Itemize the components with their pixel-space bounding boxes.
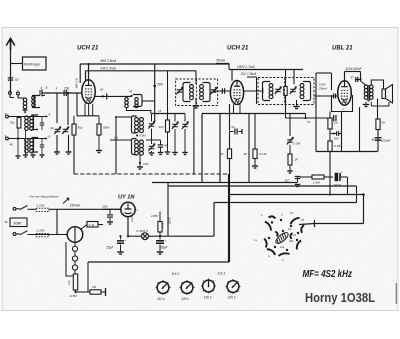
svg-text:220 v: 220 v — [227, 296, 236, 300]
grid capacitor tube2 — [221, 88, 223, 94]
svg-text:105V: 105V — [151, 214, 159, 218]
svg-text:50mA: 50mA — [217, 59, 225, 63]
svg-text:6.3V/0.3: 6.3V/0.3 — [137, 229, 149, 233]
wire IF1 to tube2 grid — [214, 90, 232, 92]
IF1 primary former — [183, 83, 191, 102]
coil L4a — [25, 139, 29, 143]
svg-text:0.15A: 0.15A — [37, 229, 45, 233]
svg-text:60: 60 — [100, 88, 104, 92]
svg-text:130V: 130V — [130, 214, 134, 222]
svg-text:0.1W: 0.1W — [260, 152, 268, 156]
wire grid row tube1 — [42, 92, 82, 94]
right page edge mark — [395, 283, 397, 304]
wire chain bypass — [66, 242, 73, 276]
wire resistor row — [299, 176, 312, 178]
svg-text:1.5M: 1.5M — [313, 181, 320, 185]
bus AVC return — [152, 182, 297, 184]
wire screen into IF2 — [293, 70, 295, 85]
wire rectifier input — [103, 208, 121, 210]
IF transformer 1 box — [176, 79, 218, 106]
IF1 primary coil — [190, 85, 194, 89]
IF1 secondary coil — [200, 85, 204, 89]
band coil left — [125, 98, 128, 101]
resistor 0.1W screen — [328, 141, 332, 152]
tube1 cathode pins — [84, 104, 86, 116]
svg-text:KW 2.3mA: KW 2.3mA — [101, 67, 116, 71]
svg-text:Richtmagn.: Richtmagn. — [24, 63, 41, 67]
svg-text:2: 2 — [16, 89, 19, 93]
svg-text:11a: 11a — [280, 245, 285, 249]
svg-text:57: 57 — [15, 78, 19, 82]
volume pot 0.5M — [289, 114, 291, 137]
dial 110V — [157, 282, 169, 294]
wire W2 corner — [213, 203, 215, 237]
dial 220V — [181, 282, 193, 294]
wire L2 to gang — [42, 95, 46, 97]
wire tube1 to bandfilter — [95, 95, 131, 97]
svg-text:10V 1.5mA: 10V 1.5mA — [241, 72, 257, 76]
resistor 4.42 — [87, 222, 98, 228]
switch S1b — [16, 233, 20, 235]
wire osc row A — [116, 116, 132, 118]
svg-text:130 v: 130 v — [204, 296, 212, 300]
power rating box 36W — [10, 218, 27, 227]
wire tube3 cathode to bus — [341, 112, 343, 152]
svg-text:40a: 40a — [289, 239, 294, 243]
resistor 1.5M — [312, 175, 324, 179]
svg-text:50V: 50V — [157, 83, 164, 87]
svg-text:1M: 1M — [92, 285, 97, 289]
osc fixed capacitor 45 — [146, 139, 161, 141]
node bus1 tube — [88, 63, 90, 65]
wire osc to gang link — [115, 117, 117, 174]
wire osc coil bottom — [139, 155, 141, 163]
wire terminal 4 row — [8, 138, 47, 140]
IF2 damping resistor — [284, 87, 287, 96]
wire AF drop mid — [248, 114, 250, 183]
svg-text:0μ: 0μ — [232, 125, 236, 129]
svg-text:150mA: 150mA — [70, 204, 80, 208]
svg-text:(25)μF: (25)μF — [381, 139, 390, 143]
svg-text:45: 45 — [129, 90, 133, 94]
IF2 secondary trimmer — [290, 88, 296, 90]
wire band coil bottom — [127, 108, 151, 114]
wire chassis to node — [87, 262, 89, 292]
shield box tube3 — [332, 95, 353, 112]
ground IF2 — [296, 100, 298, 107]
terminal 3 — [6, 115, 9, 118]
resistor 70k — [227, 149, 231, 159]
svg-text:UBL 21: UBL 21 — [332, 46, 353, 52]
gang link dashed — [74, 173, 229, 175]
resistor 2K — [376, 119, 380, 130]
gang capacitor C1 — [56, 93, 58, 123]
screen feed left — [316, 72, 332, 74]
IF2 secondary former — [303, 82, 311, 101]
dial lamp chain — [74, 242, 76, 246]
electrolytic 50uF right — [335, 173, 339, 181]
node grid tube1 — [67, 92, 70, 95]
svg-text:50μF: 50μF — [160, 246, 168, 250]
wire 50uF to W1 — [347, 177, 349, 195]
svg-text:+: + — [165, 238, 167, 242]
wire ballast right — [81, 225, 88, 230]
svg-text:0.1M: 0.1M — [139, 134, 146, 138]
coil L4b — [30, 139, 34, 143]
svg-text:110 v: 110 v — [157, 297, 165, 301]
svg-text:25μF: 25μF — [105, 246, 114, 250]
svg-text:250: 250 — [333, 137, 339, 141]
grid capacitor UBL21 — [333, 94, 335, 99]
wire anode to OPT primary — [361, 81, 367, 86]
svg-text:0.25A: 0.25A — [37, 203, 45, 207]
output transformer T1 — [364, 85, 368, 89]
IF1 secondary former — [203, 83, 211, 102]
svg-text:0.1W: 0.1W — [334, 144, 342, 148]
vertical W1 to chassis — [228, 174, 230, 262]
ground osc — [137, 166, 143, 168]
band switch contacts — [265, 221, 273, 231]
svg-text:5: 5 — [46, 86, 48, 90]
vertical 168 — [167, 183, 169, 237]
chassis bus bottom — [88, 261, 229, 263]
speaker LS — [382, 89, 386, 99]
wire bus to 100V line — [228, 64, 230, 70]
antenna A1 — [6, 39, 15, 51]
resistor 70 ohm — [17, 118, 21, 129]
wire bus MW left drop — [79, 64, 81, 83]
resistor 50u under tube1 — [73, 116, 75, 124]
svg-text:22F: 22F — [158, 125, 164, 129]
IF2 primary coil — [269, 84, 273, 88]
IF1 centre feed — [195, 71, 197, 84]
svg-text:UCH 21: UCH 21 — [77, 46, 99, 52]
wire mains bottom — [28, 234, 68, 236]
wire IF1 shield down — [193, 106, 195, 175]
resistor 22F — [167, 71, 169, 120]
input coil L2 — [32, 96, 40, 108]
wire mains top — [28, 208, 37, 210]
svg-text:70μ: 70μ — [10, 121, 15, 125]
svg-text:4F: 4F — [51, 126, 55, 130]
IF1 primary trimmer — [177, 89, 183, 91]
speaker wires — [370, 102, 372, 106]
oscillator coil A — [132, 116, 137, 133]
wire 50V drop — [154, 64, 156, 122]
electrolytic 25uF output — [375, 137, 382, 139]
wire drop from cathode bus left — [315, 73, 317, 152]
capacitor 250 cathode — [329, 129, 331, 141]
svg-text:4.42: 4.42 — [89, 223, 95, 227]
wire to band switch — [315, 223, 364, 225]
terminal mains N — [13, 233, 16, 236]
svg-text:1.5k: 1.5k — [161, 222, 165, 228]
band switch feed — [299, 224, 315, 225]
coil L3a — [25, 116, 29, 120]
wire 10V stub — [247, 76, 257, 78]
wire tube2 anode — [231, 70, 233, 81]
dial lamp 6.3V — [128, 235, 142, 237]
svg-text:-0.5M: -0.5M — [69, 294, 77, 298]
IF2 secondary coil — [300, 84, 304, 88]
coil L3b — [30, 116, 34, 120]
IF2 primary trimmer — [275, 88, 281, 90]
wire bus KW left drop — [85, 71, 87, 81]
AVC line 57 — [286, 117, 331, 119]
svg-text:110: 110 — [67, 280, 71, 285]
osc gang capacitor 1 — [174, 114, 176, 122]
wire under tube1 — [77, 115, 99, 117]
capacitor 57 in antenna lead — [8, 77, 14, 79]
node chain bottom — [75, 290, 77, 292]
bus MW 2.8mA — [80, 63, 229, 65]
padder capacitor — [149, 123, 155, 125]
svg-text:Horny 1O38L: Horny 1O38L — [305, 290, 375, 305]
grounds under coil block — [17, 128, 19, 156]
electrolytic 25uF — [120, 236, 122, 239]
capacitor row3 — [40, 144, 45, 146]
wire tube1 anode up — [88, 64, 90, 80]
IF transformer 2 box — [258, 78, 314, 105]
node W1 right — [362, 193, 365, 196]
band switch cam — [274, 231, 290, 246]
svg-text:S.K.2: S.K.2 — [172, 272, 180, 276]
svg-text:C1: C1 — [290, 211, 294, 215]
svg-text:2M: 2M — [333, 121, 339, 125]
svg-text:MW 2.8mA: MW 2.8mA — [101, 59, 117, 63]
svg-text:⋊: ⋊ — [4, 220, 8, 224]
svg-text:57: 57 — [307, 120, 311, 124]
tube UBL21 — [338, 81, 352, 105]
svg-text:40: 40 — [10, 143, 14, 147]
svg-text:MW 2.8: MW 2.8 — [75, 78, 79, 88]
svg-text:1F: 1F — [295, 158, 299, 162]
IF bus right segment — [202, 113, 306, 115]
ground output transformer — [365, 102, 367, 105]
capacitor at AVC end — [333, 115, 335, 121]
resistor 110 ohm — [73, 274, 77, 290]
wire W2 heater line — [214, 202, 357, 204]
svg-text:Nur bei Haupt-Export: Nur bei Haupt-Export — [30, 195, 59, 199]
electrolytic 50uF main — [159, 232, 161, 240]
switch S1a — [16, 208, 20, 210]
dial 130V — [203, 280, 215, 292]
terminal 1 — [9, 92, 12, 95]
resistor 1M — [90, 290, 101, 294]
svg-text:220: 220 — [142, 162, 148, 166]
ground cathode2 — [252, 165, 258, 167]
svg-text:S.K.1: S.K.1 — [218, 272, 226, 276]
ground under L1 — [24, 108, 26, 110]
screen line 100V 2.7mA — [229, 69, 303, 71]
gang capacitor C2 — [67, 93, 69, 125]
wire W1 AF line — [229, 194, 364, 196]
capacitor row2 — [40, 122, 45, 124]
wire IF bus drop mid — [219, 114, 221, 183]
svg-text:MF= 4S2 kHz: MF= 4S2 kHz — [303, 269, 353, 280]
wire tube2 cathode drop — [229, 132, 231, 150]
oscillator coil B — [132, 139, 137, 155]
wire tube2 to AF — [229, 104, 231, 131]
Richtmagn box — [23, 57, 47, 70]
wire OPT secondary to output jack — [377, 99, 379, 120]
wire dropper tap — [56, 209, 58, 234]
terminal 2 — [17, 92, 20, 95]
svg-text:Ca: Ca — [114, 136, 118, 140]
wire W1 down to band switch — [363, 195, 365, 224]
ballast lamp — [67, 227, 83, 243]
svg-text:50: 50 — [244, 152, 248, 156]
bus KW 2.3mA — [86, 70, 197, 72]
svg-text:20V: 20V — [101, 204, 108, 208]
wire heater step — [168, 185, 357, 187]
svg-text:UCH 21: UCH 21 — [227, 46, 249, 52]
wire osc row B — [110, 139, 132, 141]
wire rectifier output — [127, 217, 129, 237]
wire band coil to 50V line — [142, 100, 155, 102]
svg-text:110V 40mF: 110V 40mF — [346, 67, 363, 71]
wire OPT return down — [359, 107, 361, 152]
wire 0.1W to W1 — [329, 152, 331, 195]
IF2 centre — [285, 70, 287, 87]
svg-text:220 v: 220 v — [180, 297, 189, 301]
IF bus left segment — [152, 113, 186, 115]
svg-text:UY 1N: UY 1N — [118, 195, 135, 201]
wire IF bus drop left — [201, 114, 203, 183]
wire tube2 plate to IF2 — [244, 90, 263, 92]
svg-text:100V 2.7mA: 100V 2.7mA — [237, 65, 255, 69]
svg-text:+: + — [341, 171, 343, 175]
dial 220V second — [227, 281, 239, 293]
band coil right — [133, 95, 142, 107]
resistor 50W right — [98, 116, 100, 124]
screen dropper 2M — [329, 112, 331, 119]
tube2 cathode pins — [233, 104, 235, 113]
osc trimmer 2 — [149, 145, 155, 147]
svg-text:267: 267 — [284, 179, 290, 183]
wire OPT secondary to speaker — [371, 80, 383, 90]
coupling capacitor 0.1u — [230, 131, 234, 133]
svg-text:⊕: ⊕ — [372, 138, 375, 142]
svg-text:20p: 20p — [63, 87, 70, 91]
resistor 0.1W — [254, 114, 256, 150]
input coil L1 — [9, 94, 11, 97]
IF1 secondary trimmer — [211, 89, 217, 91]
svg-text:/20mA: /20mA — [318, 86, 328, 90]
wire to 1M resistor — [76, 291, 91, 293]
capacitor 20p series — [63, 90, 65, 96]
tube UCH21 second — [230, 81, 243, 105]
terminal 4 — [6, 137, 9, 140]
osc gang capacitor 2 — [184, 114, 186, 122]
svg-text:+: + — [125, 238, 127, 242]
ground IF1 — [193, 105, 200, 107]
svg-text:1+: 1+ — [254, 238, 257, 242]
cathode bus right — [316, 151, 378, 153]
terminal pickup — [105, 288, 107, 296]
svg-text:36W: 36W — [13, 221, 22, 226]
wire heater Z corner — [356, 186, 358, 203]
svg-text:15: 15 — [158, 109, 162, 113]
IF2 primary former — [263, 82, 271, 101]
capacitor 267 — [297, 177, 299, 183]
wire terminal 3 row — [8, 116, 47, 118]
wire antenna to Richtmagn box — [11, 63, 23, 65]
svg-text:0.5M: 0.5M — [294, 142, 301, 146]
wire grid UBL21 — [314, 95, 338, 97]
svg-text:57: 57 — [351, 76, 355, 80]
tube UCH21 first — [82, 80, 95, 104]
resistor 1W — [289, 145, 291, 154]
terminal mains L — [13, 207, 16, 210]
svg-text:50μ: 50μ — [78, 126, 83, 130]
tube UY1N — [121, 202, 135, 216]
svg-text:N4: N4 — [220, 152, 224, 156]
anode supply 110V 40mA — [344, 72, 346, 81]
